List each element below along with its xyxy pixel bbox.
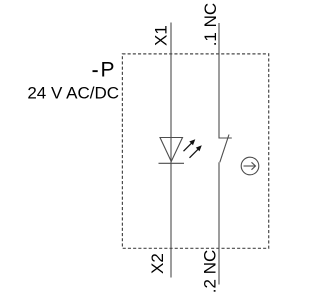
LED emission arrow 1 [184,139,196,151]
NC contact fixed terminal wire (.1 NC) [219,23,232,138]
LED lamp triangle [160,138,183,162]
svg-text:X1: X1 [152,25,171,46]
NC contact moving blade [220,135,229,163]
actuator symbol arrow [244,162,256,169]
svg-text:X2: X2 [148,253,167,274]
enclosure dashed box [122,54,268,248]
wire X1 to X2 through LED [170,23,172,278]
svg-text:24 V AC/DC: 24 V AC/DC [27,84,119,103]
label -P [93,70,98,72]
svg-text:.2 NC: .2 NC [201,250,220,293]
LED cathode bar [159,162,185,164]
actuator symbol circle [241,157,259,175]
LED emission arrow 2 [190,145,202,158]
svg-text:P: P [100,58,114,81]
NC contact lower wire (.2 NC) [218,162,220,284]
svg-text:.1 NC: .1 NC [201,3,220,46]
